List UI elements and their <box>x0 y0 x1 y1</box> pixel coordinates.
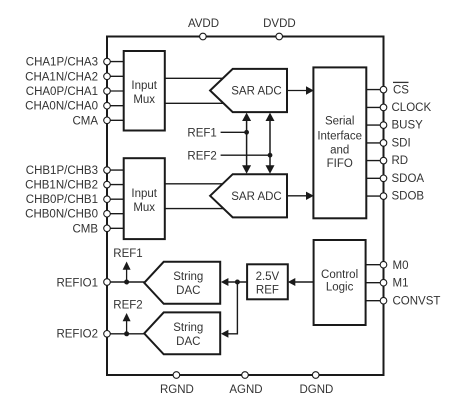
pin circle CHA1P/CHA3 <box>104 58 111 65</box>
wire REF1 vertical double arrow between ADCs <box>246 118 248 168</box>
wire CHA1P/CHA3 to Input Mux A <box>107 61 124 63</box>
svg-text:CMA: CMA <box>72 115 98 127</box>
svg-text:FIFO: FIFO <box>327 158 353 170</box>
wire REFIO1 to String DAC 1 <box>107 281 150 283</box>
wire REF1 label stub <box>221 131 247 133</box>
block SAR ADC B pentagon <box>210 174 287 217</box>
pin circle M1 <box>380 279 387 286</box>
wire CHB1P/CHB3 to Input Mux B <box>107 169 124 171</box>
pin circle CMA <box>104 117 111 124</box>
pin circle CHA0N/CHA0 <box>104 102 111 109</box>
wire Serial Interface to CLOCK pin <box>366 106 383 108</box>
wire Input Mux A to SAR ADC A lower <box>165 102 226 104</box>
pin circle BUSY <box>380 122 387 129</box>
pin circle AGND <box>242 372 249 379</box>
pin circle REFIO1 <box>104 279 111 286</box>
svg-text:BUSY: BUSY <box>392 120 424 132</box>
svg-text:REF2: REF2 <box>113 299 142 311</box>
svg-text:and: and <box>330 145 349 157</box>
wire REF2 label stub <box>221 154 270 156</box>
svg-text:CMB: CMB <box>72 223 98 235</box>
svg-text:DAC: DAC <box>176 336 200 348</box>
svg-text:2.5V: 2.5V <box>256 271 280 283</box>
svg-text:Input: Input <box>131 188 157 200</box>
svg-text:CHA0N/CHA0: CHA0N/CHA0 <box>25 101 98 113</box>
wire REF branch down to String DAC 2 with arrow <box>226 282 237 334</box>
pin circle SDOA <box>380 175 387 182</box>
block SAR ADC A pentagon <box>210 69 287 112</box>
svg-text:REF1: REF1 <box>113 248 142 260</box>
wire SAR ADC B to Serial Interface with arrow <box>287 195 307 197</box>
wire CMB to Input Mux B <box>107 227 124 229</box>
chip boundary outer box <box>107 37 384 376</box>
wire Serial Interface to BUSY pin <box>366 124 383 126</box>
wire Control Logic to M0 pin <box>366 264 384 266</box>
pin circle REFIO2 <box>104 331 111 338</box>
svg-text:Logic: Logic <box>326 282 354 294</box>
svg-text:Input: Input <box>131 80 157 92</box>
block 2.5V REF <box>247 264 288 299</box>
junction REF1 dot <box>244 130 249 135</box>
svg-text:DAC: DAC <box>176 285 200 297</box>
block Control Logic <box>314 240 366 325</box>
junction REFIO1 dot <box>124 280 129 285</box>
svg-text:CHA1N/CHA2: CHA1N/CHA2 <box>25 71 98 83</box>
block Input Mux B <box>124 158 165 239</box>
svg-text:REF1: REF1 <box>187 127 216 139</box>
pin circle SDI <box>380 140 387 147</box>
wire CHA1N/CHA2 to Input Mux A <box>107 75 124 77</box>
svg-text:CONVST: CONVST <box>393 296 441 308</box>
wire SAR ADC A to Serial Interface with arrow <box>287 90 307 92</box>
svg-text:CHB1P/CHB3: CHB1P/CHB3 <box>26 165 98 177</box>
pin circle CHB1N/CHB2 <box>104 181 111 188</box>
svg-text:RGND: RGND <box>160 384 194 396</box>
wire REF1 up arrow at REFIO1 <box>126 268 128 282</box>
svg-text:SDOB: SDOB <box>392 191 425 203</box>
wire REF2 vertical double arrow between ADCs <box>269 118 271 168</box>
pin circle CHA1N/CHA2 <box>104 73 111 80</box>
pin circle DGND <box>312 372 319 379</box>
svg-text:CHB0P/CHB1: CHB0P/CHB1 <box>26 194 98 206</box>
svg-text:Mux: Mux <box>133 94 155 106</box>
block Serial Interface and FIFO <box>313 67 366 218</box>
wire Serial Interface to SDI pin <box>366 142 383 144</box>
svg-text:SAR ADC: SAR ADC <box>231 86 282 98</box>
svg-text:AVDD: AVDD <box>188 18 219 30</box>
block String DAC 2 pentagon <box>144 312 220 354</box>
svg-text:CHB1N/CHB2: CHB1N/CHB2 <box>25 180 98 192</box>
pin circle CHB1P/CHB3 <box>104 167 111 174</box>
svg-text:DGND: DGND <box>299 384 333 396</box>
svg-text:AGND: AGND <box>229 384 262 396</box>
svg-text:SDI: SDI <box>392 137 411 149</box>
svg-text:Mux: Mux <box>133 202 155 214</box>
wire REF2 up arrow at REFIO2 <box>126 320 128 334</box>
wire Control Logic to 2.5V REF with arrow <box>293 281 314 283</box>
svg-text:SDOA: SDOA <box>392 173 425 185</box>
pin circle CLOCK <box>380 104 387 111</box>
wire Input Mux B to SAR ADC B lower <box>165 208 226 210</box>
wire CHB0N/CHB0 to Input Mux B <box>107 213 124 215</box>
wire Input Mux A to SAR ADC A upper <box>165 77 226 79</box>
wire CHA0P/CHA1 to Input Mux A <box>107 90 124 92</box>
wire CHB1N/CHB2 to Input Mux B <box>107 184 124 186</box>
pin circle M0 <box>380 261 387 268</box>
wire 2.5V REF to String DAC 1 with arrow <box>226 281 247 283</box>
wire REFIO2 to String DAC 2 <box>107 333 150 335</box>
junction REF2 dot <box>268 153 273 158</box>
wire Serial Interface to SDOA pin <box>366 177 383 179</box>
svg-text:REF2: REF2 <box>187 150 216 162</box>
svg-text:CLOCK: CLOCK <box>392 102 432 114</box>
svg-text:M1: M1 <box>393 278 409 290</box>
pin circle CONVST <box>380 297 387 304</box>
pin circle RGND <box>173 372 180 379</box>
pin circle DVDD <box>276 33 283 40</box>
svg-text:Control: Control <box>321 269 358 281</box>
wire Serial Interface to CS pin <box>366 89 383 91</box>
svg-text:Serial: Serial <box>325 116 354 128</box>
svg-text:REF: REF <box>256 284 279 296</box>
svg-text:String: String <box>173 322 203 334</box>
wire Serial Interface to SDOB pin <box>366 195 383 197</box>
svg-text:CHA1P/CHA3: CHA1P/CHA3 <box>26 57 98 69</box>
wire CMA to Input Mux A <box>107 119 124 121</box>
svg-text:RD: RD <box>392 155 409 167</box>
svg-text:SAR ADC: SAR ADC <box>231 191 282 203</box>
svg-text:CS: CS <box>393 84 409 96</box>
wire Control Logic to M1 pin <box>366 282 384 284</box>
svg-text:CHB0N/CHB0: CHB0N/CHB0 <box>25 209 98 221</box>
svg-text:Interface: Interface <box>317 131 362 143</box>
pin circle CHA0P/CHA1 <box>104 88 111 95</box>
svg-text:String: String <box>173 271 203 283</box>
wire CHB0P/CHB1 to Input Mux B <box>107 198 124 200</box>
pin circle CS <box>380 86 387 93</box>
wire Input Mux B to SAR ADC B upper <box>165 183 226 185</box>
wire CHA0N/CHA0 to Input Mux A <box>107 105 124 107</box>
pin circle AVDD <box>200 33 207 40</box>
pin circle CHB0P/CHB1 <box>104 196 111 203</box>
svg-text:REFIO1: REFIO1 <box>56 278 98 290</box>
svg-text:M0: M0 <box>393 260 409 272</box>
junction dot on REF output <box>235 280 240 285</box>
svg-text:REFIO2: REFIO2 <box>56 329 98 341</box>
svg-text:DVDD: DVDD <box>263 18 296 30</box>
pin circle CMB <box>104 225 111 232</box>
wire Control Logic to CONVST pin <box>366 300 384 302</box>
svg-text:CHA0P/CHA1: CHA0P/CHA1 <box>26 86 98 98</box>
pin circle RD <box>380 157 387 164</box>
pin circle SDOB <box>380 193 387 200</box>
junction REFIO2 dot <box>124 331 129 336</box>
wire Serial Interface to RD pin <box>366 160 383 162</box>
block Input Mux A <box>124 51 165 131</box>
block String DAC 1 pentagon <box>144 262 220 304</box>
pin circle CHB0N/CHB0 <box>104 210 111 217</box>
